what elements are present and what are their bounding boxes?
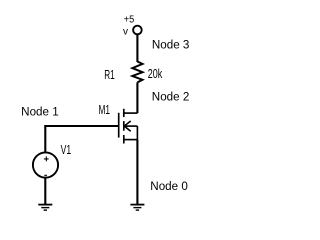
wire node1 corner down to V1 bbox=[44, 125, 46, 152]
svg-text:v: v bbox=[123, 26, 128, 37]
wire gate lead bbox=[44, 125, 118, 127]
node VDD terminal bbox=[133, 26, 142, 35]
M1 drain lead bbox=[124, 112, 138, 114]
M1 channel bulk segment bbox=[123, 121, 125, 131]
svg-text:M1: M1 bbox=[99, 103, 111, 117]
wire terminal to R1 bbox=[136, 35, 138, 63]
V1 plus sign bbox=[45, 157, 47, 162]
M1 channel source segment bbox=[123, 135, 125, 144]
wire V1 to ground bbox=[44, 178, 46, 204]
M1 bulk-source tie bbox=[136, 126, 138, 140]
ground left bbox=[38, 205, 52, 211]
M1 channel drain segment bbox=[123, 109, 125, 117]
V1 minus sign bbox=[44, 174, 47, 176]
wire R1 to drain bbox=[136, 82, 138, 113]
svg-text:Node 2: Node 2 bbox=[152, 91, 190, 103]
M1 gate plate bbox=[118, 113, 120, 138]
svg-text:+5: +5 bbox=[124, 14, 135, 25]
resistor R1 bbox=[132, 62, 142, 83]
svg-text:20k: 20k bbox=[148, 67, 163, 81]
M1 source lead bbox=[124, 139, 138, 141]
source V1 bbox=[33, 152, 58, 177]
M1 bulk arrow bbox=[124, 121, 131, 126]
svg-text:R1: R1 bbox=[104, 68, 115, 82]
svg-text:V1: V1 bbox=[61, 143, 72, 157]
svg-text:Node 0: Node 0 bbox=[150, 181, 188, 193]
svg-text:Node 3: Node 3 bbox=[152, 39, 190, 51]
wire source to ground bbox=[136, 140, 138, 204]
ground right bbox=[130, 205, 144, 211]
svg-text:Node 1: Node 1 bbox=[21, 106, 59, 118]
transistor M1 bbox=[119, 109, 138, 144]
M1 bulk lead bbox=[124, 125, 138, 127]
